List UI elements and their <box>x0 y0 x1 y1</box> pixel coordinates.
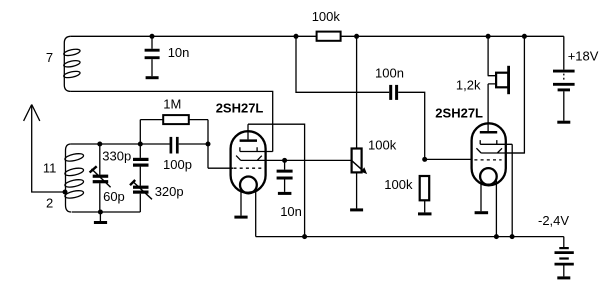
ground under V2 filament <box>475 211 489 214</box>
wire top rail <box>71 35 564 37</box>
svg-text:100n: 100n <box>375 65 404 80</box>
svg-text:10n: 10n <box>168 45 190 60</box>
junction tank bottom/ground <box>98 210 103 215</box>
ground under V1 filament <box>234 216 247 219</box>
tube V1 2SH27L <box>231 124 352 236</box>
junction V1 anode line/bottom rail <box>302 234 307 239</box>
resistor R2 1M grid leak <box>140 115 208 144</box>
junction V2 filament/bottom rail <box>494 234 499 239</box>
speaker BA1 1,2k <box>496 66 509 94</box>
resistor R1 100k anode load <box>317 32 341 41</box>
svg-text:11: 11 <box>43 160 57 175</box>
grid2 V2 <box>480 140 512 237</box>
svg-text:100k: 100k <box>368 137 397 152</box>
grid3 V2 <box>476 148 524 153</box>
ground under tank <box>99 212 101 221</box>
resistor R4 100k grid leak V2 <box>420 176 430 212</box>
filament V1 <box>240 177 257 194</box>
inductor L2 tank coil <box>64 144 84 212</box>
grid1 V2 dotted <box>474 159 501 161</box>
capacitor C4 330p <box>133 144 149 186</box>
junction antenna tap on L2 <box>63 190 68 195</box>
capacitor C6 100n coupling <box>391 85 397 100</box>
filament V2 <box>480 168 497 185</box>
junction V2 g2 line/bottom rail <box>510 234 515 239</box>
svg-text:320p: 320p <box>155 184 184 199</box>
junction R2-C3/V1 grid <box>206 142 211 147</box>
ground under R4 <box>418 212 432 215</box>
wire grid bus <box>71 143 170 145</box>
battery B1 +18V <box>553 71 575 121</box>
junction speaker branch/top rail <box>486 34 491 39</box>
envelope V2 <box>472 123 506 185</box>
anode V2 <box>480 131 497 134</box>
svg-text:2SH27L: 2SH27L <box>435 105 483 120</box>
capacitor C2v 60p variable <box>90 144 111 212</box>
svg-text:100k: 100k <box>312 9 341 24</box>
wire tank bottom <box>72 211 141 213</box>
antenna arrow W1 <box>24 105 66 193</box>
junction R1 right/R3 top <box>354 34 359 39</box>
wire R4 junction to tube2 grid <box>425 158 472 160</box>
envelope V1 <box>231 131 266 193</box>
potentiometer R3 100k regeneration <box>352 149 367 209</box>
wire tickler bottom to tube1 g2 <box>71 91 273 151</box>
svg-text:60p: 60p <box>103 189 125 204</box>
grid3 V1 <box>236 156 352 161</box>
wire grid bus right of C3 <box>179 143 208 145</box>
wire bottom rail <box>256 236 564 238</box>
svg-text:330p: 330p <box>102 148 131 163</box>
svg-text:2SH27L: 2SH27L <box>216 101 264 116</box>
ground under B2 <box>557 276 570 279</box>
junction C6-R4/V2 grid <box>422 157 427 162</box>
grid2 V1 <box>240 147 273 151</box>
svg-text:-2,4V: -2,4V <box>538 213 569 228</box>
junction C1/top rail <box>150 34 155 39</box>
ground under C7 <box>278 192 292 195</box>
wire V1 anode to bottom rail <box>248 124 305 236</box>
junction C4-R2/grid bus <box>138 142 143 147</box>
anode V1 <box>240 139 257 142</box>
wire rail tap to coupling cap C6 <box>296 36 389 92</box>
junction C2v/grid bus <box>97 142 102 147</box>
inductor L1 tickler coil (7 turns) <box>63 36 80 91</box>
svg-text:10n: 10n <box>280 204 302 219</box>
wire C6 to tube2 grid junction <box>398 92 425 159</box>
wire speaker branch from rail <box>488 36 496 131</box>
grid1 V1 dotted <box>234 167 264 169</box>
svg-text:1,2k: 1,2k <box>456 77 481 92</box>
svg-text:7: 7 <box>46 50 53 65</box>
svg-text:100k: 100k <box>384 177 413 192</box>
junction R1 left/top rail <box>294 34 299 39</box>
svg-text:100p: 100p <box>163 157 192 172</box>
ground under R3 <box>350 208 363 211</box>
wire tube1 grid lead <box>208 120 233 169</box>
ground under C1 <box>146 76 159 79</box>
capacitor C5v 320p variable <box>130 180 152 212</box>
ground under B1 <box>557 121 570 124</box>
wire tube2 screen feed from rail <box>505 36 524 153</box>
wire pot top feed <box>356 36 358 148</box>
tube V2 2SH27L <box>472 123 525 236</box>
svg-text:2: 2 <box>46 196 53 211</box>
capacitor C7 10n <box>277 160 293 192</box>
junction C7/V1 g3 wire <box>282 158 287 163</box>
capacitor C1 10n decoupling <box>145 36 160 76</box>
svg-text:+18V: +18V <box>568 48 599 63</box>
wire battery B1 drop <box>563 36 565 69</box>
svg-text:1M: 1M <box>163 97 181 112</box>
capacitor C3 100p grid <box>171 137 177 154</box>
battery B2 -2,4V <box>555 248 574 276</box>
wire battery B2 drop <box>563 237 565 247</box>
junction V2 g3 feed/top rail <box>522 34 527 39</box>
